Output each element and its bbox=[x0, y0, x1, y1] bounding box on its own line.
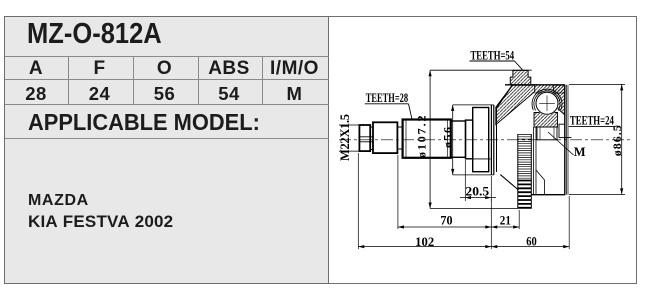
inner race right stub bbox=[559, 124, 565, 137]
TEETH=54 label bbox=[471, 48, 515, 62]
thread key slot bbox=[359, 137, 372, 142]
shaft neck bbox=[397, 127, 402, 149]
housing left lip bbox=[490, 105, 492, 175]
svg-text:70: 70 bbox=[440, 214, 452, 228]
race ball window bbox=[535, 92, 559, 116]
svg-text:M22X1.5: M22X1.5 bbox=[338, 114, 352, 161]
svg-text:21: 21 bbox=[500, 214, 511, 228]
ABS ring section (hatched, top) bbox=[510, 70, 531, 85]
spline cylinder TEETH=28 bbox=[403, 120, 451, 158]
dim line dia107.2 bbox=[429, 70, 431, 208]
ball bbox=[536, 92, 558, 114]
title MZ-O-812A bbox=[27, 18, 162, 51]
TEETH=24 label bbox=[570, 114, 615, 128]
housing upper outer profile bbox=[497, 85, 513, 108]
M22X1.5 label bbox=[338, 114, 352, 161]
wall strip over ball bbox=[535, 85, 565, 93]
step cylinder S2 bbox=[466, 120, 473, 159]
centerline bbox=[339, 139, 633, 141]
left gray info panel bbox=[5, 17, 329, 283]
housing right face bbox=[564, 85, 566, 195]
inner race spline hub bbox=[537, 127, 557, 140]
svg-text:TEETH=24: TEETH=24 bbox=[570, 114, 615, 128]
shaft section bbox=[373, 122, 397, 153]
inner race hatched bbox=[534, 113, 558, 128]
svg-text:ø86.5: ø86.5 bbox=[610, 125, 624, 156]
header row A F O ABS I/M/O bbox=[5, 58, 67, 80]
lower corner details bbox=[536, 170, 545, 195]
cage arcs bbox=[534, 91, 560, 111]
thread stub bbox=[359, 125, 370, 151]
svg-text:TEETH=54: TEETH=54 bbox=[471, 48, 515, 62]
M22 extension lines bbox=[339, 125, 359, 151]
M label bbox=[574, 145, 586, 159]
step cylinder S1 bbox=[451, 121, 466, 157]
APPLICABLE MODEL: bbox=[28, 109, 260, 136]
svg-text:ø107.2: ø107.2 bbox=[415, 116, 429, 159]
svg-text:M: M bbox=[574, 145, 586, 159]
step cylinder S3 bbox=[473, 108, 489, 172]
model names bbox=[28, 192, 89, 210]
thread relief groove bbox=[370, 127, 373, 150]
value row 28 24 56 54 M bbox=[5, 83, 67, 105]
wall wedge right of ball bbox=[553, 85, 565, 115]
ABS ring band (lower exterior view) bbox=[518, 134, 532, 209]
dims 102 / 60 bbox=[415, 235, 537, 249]
dim line dia56 bbox=[452, 105, 454, 175]
TEETH=28 label bbox=[366, 91, 408, 105]
dims 70 / 21 bbox=[440, 214, 511, 228]
dim dia86.5 bbox=[569, 84, 625, 194]
housing bottom edge bbox=[532, 194, 566, 196]
housing lower-left slope bbox=[500, 175, 518, 190]
dim 20.5 bbox=[465, 184, 489, 198]
table lines bbox=[5, 56, 329, 57]
svg-text:TEETH=28: TEETH=28 bbox=[366, 91, 408, 105]
housing upper wall hatched section bbox=[496, 85, 535, 125]
svg-text:ø56: ø56 bbox=[440, 127, 454, 148]
